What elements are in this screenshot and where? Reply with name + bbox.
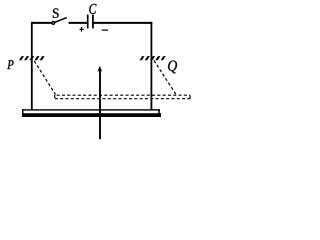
dashed displaced wire from Q [154, 61, 176, 95]
plus sign at capacitor left [80, 27, 84, 32]
wire: capacitor right plate to top-right corner [93, 22, 152, 24]
table plate top line [22, 109, 160, 110]
label Q [168, 61, 177, 74]
label P [7, 60, 13, 69]
table plate left edge [22, 109, 24, 117]
wire: left vertical conductor P [31, 22, 33, 110]
wire: switch to capacitor left plate [69, 22, 88, 24]
wire: top left segment to switch [31, 22, 52, 24]
table plate right edge [158, 109, 160, 117]
label C [89, 4, 96, 14]
table plate thick bottom bar [22, 113, 161, 117]
arrow shaft (field B upward) [99, 69, 101, 140]
capacitor C left plate [87, 15, 89, 29]
capacitor C right plate [92, 15, 94, 29]
dashed displaced rod outline [55, 95, 191, 99]
dashed displaced wire from P [34, 61, 55, 95]
arrow head [97, 66, 102, 72]
minus sign at capacitor right [102, 29, 108, 31]
label S [53, 8, 59, 18]
fixed support hatching at Q [140, 56, 166, 60]
switch S blade [54, 18, 67, 23]
fixed support hatching at P [19, 56, 45, 60]
switch S pivot circle [52, 22, 55, 25]
wire: right vertical conductor Q [150, 22, 152, 110]
